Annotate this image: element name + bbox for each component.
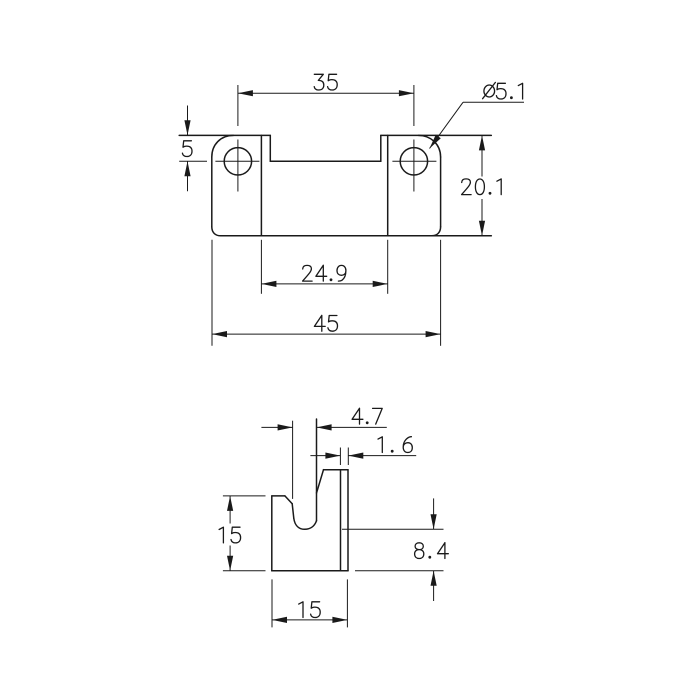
4.7 dimension line bbox=[261, 426, 386, 428]
left edge bbox=[211, 157, 213, 227]
5 bottom arrow bbox=[184, 161, 190, 176]
text 35 bbox=[314, 74, 337, 90]
24.9 left arrow bbox=[261, 281, 276, 287]
slot bottom arc bbox=[294, 518, 317, 529]
left ear step vertical bbox=[269, 135, 271, 161]
tab top edge bbox=[324, 469, 349, 471]
24.9 extension lines bbox=[261, 240, 387, 294]
45 left arrow bbox=[212, 331, 227, 337]
15 left top arrow bbox=[227, 496, 233, 511]
text 1.6 bbox=[378, 437, 412, 453]
24.9 dimension line bbox=[261, 283, 387, 285]
tab left chamfer bbox=[317, 470, 324, 493]
5 dimension line bbox=[187, 106, 189, 192]
24.9 right arrow bbox=[373, 281, 388, 287]
text 15 bottom bbox=[299, 602, 321, 618]
8.4 bottom arrow bbox=[431, 571, 437, 586]
left edge bbox=[271, 496, 273, 571]
35 left arrow bbox=[238, 90, 253, 96]
bottom-right corner arc bbox=[432, 227, 441, 236]
bottom edge bbox=[272, 570, 348, 572]
8.4 dimension line bbox=[433, 498, 435, 601]
bottom-left corner arc bbox=[212, 227, 221, 236]
5 top arrow bbox=[184, 120, 190, 135]
right hole horizontal centerline bbox=[392, 160, 436, 162]
text 4.7 bbox=[352, 408, 382, 424]
15 left extension lines bbox=[223, 496, 266, 571]
4.7 left extension line bbox=[292, 421, 294, 499]
right ear step vertical bbox=[380, 135, 382, 161]
text phi5.1 bbox=[483, 82, 523, 99]
text 5 bbox=[182, 141, 192, 157]
text 15 left bbox=[219, 527, 241, 543]
text 24.9 bbox=[303, 265, 346, 281]
phi5.1 leader bbox=[430, 102, 525, 148]
slot left wall bbox=[292, 504, 294, 519]
15 bottom dimension line bbox=[272, 619, 347, 621]
4.7 right arrow bbox=[317, 424, 332, 430]
1.6 right arrow bbox=[348, 453, 363, 459]
left hole bbox=[224, 148, 251, 175]
20.1 top arrow bbox=[479, 135, 485, 150]
1.6 left arrow bbox=[325, 453, 340, 459]
tab inner vertical bbox=[340, 470, 342, 571]
slot left chamfer bbox=[285, 496, 292, 504]
inner left vertical edge bbox=[260, 135, 262, 235]
top edge left ear with extension bbox=[179, 134, 270, 136]
slot right wall with 4.7 extension bbox=[316, 419, 318, 521]
35 dimension line bbox=[238, 92, 414, 94]
15 left dimension line bbox=[229, 496, 231, 571]
phi5.1 leader arrow bbox=[430, 135, 441, 149]
top-left corner arc bbox=[212, 135, 234, 157]
15 bottom right arrow bbox=[332, 617, 347, 623]
1.6 extension ticks bbox=[340, 448, 348, 466]
text 8.4 bbox=[415, 543, 449, 559]
middle top edge bbox=[270, 160, 381, 162]
1.6 dimension line bbox=[310, 455, 416, 457]
top-right corner arc bbox=[419, 135, 441, 157]
15 left bottom arrow bbox=[227, 556, 233, 571]
45 dimension line bbox=[212, 333, 441, 335]
8.4 top arrow bbox=[431, 514, 437, 529]
right edge bbox=[440, 157, 442, 227]
top edge right ear with extension bbox=[381, 134, 492, 136]
20.1 dimension line bbox=[481, 135, 483, 235]
text 20.1 bbox=[462, 179, 502, 195]
left hole horizontal centerline bbox=[215, 160, 259, 162]
block top-left edge bbox=[272, 495, 285, 497]
15 bottom left arrow bbox=[272, 617, 287, 623]
35 right arrow bbox=[399, 90, 414, 96]
8.4 extension lines bbox=[342, 529, 444, 571]
right hole bbox=[400, 148, 427, 175]
bottom edge with extension to 20.1 dim bbox=[221, 235, 492, 237]
45 right arrow bbox=[426, 331, 441, 337]
right edge bbox=[347, 470, 349, 571]
45 extension lines bbox=[212, 240, 441, 346]
inner right vertical edge bbox=[387, 135, 389, 235]
5 dim extension line bbox=[179, 160, 207, 162]
left hole vertical centerline / 35 extension bbox=[237, 85, 239, 192]
right hole vertical centerline / 35 extension bbox=[413, 85, 415, 192]
15 bottom extension lines bbox=[272, 579, 347, 627]
20.1 bottom arrow bbox=[479, 221, 485, 236]
text 45 bbox=[314, 315, 337, 331]
4.7 left arrow bbox=[278, 424, 293, 430]
